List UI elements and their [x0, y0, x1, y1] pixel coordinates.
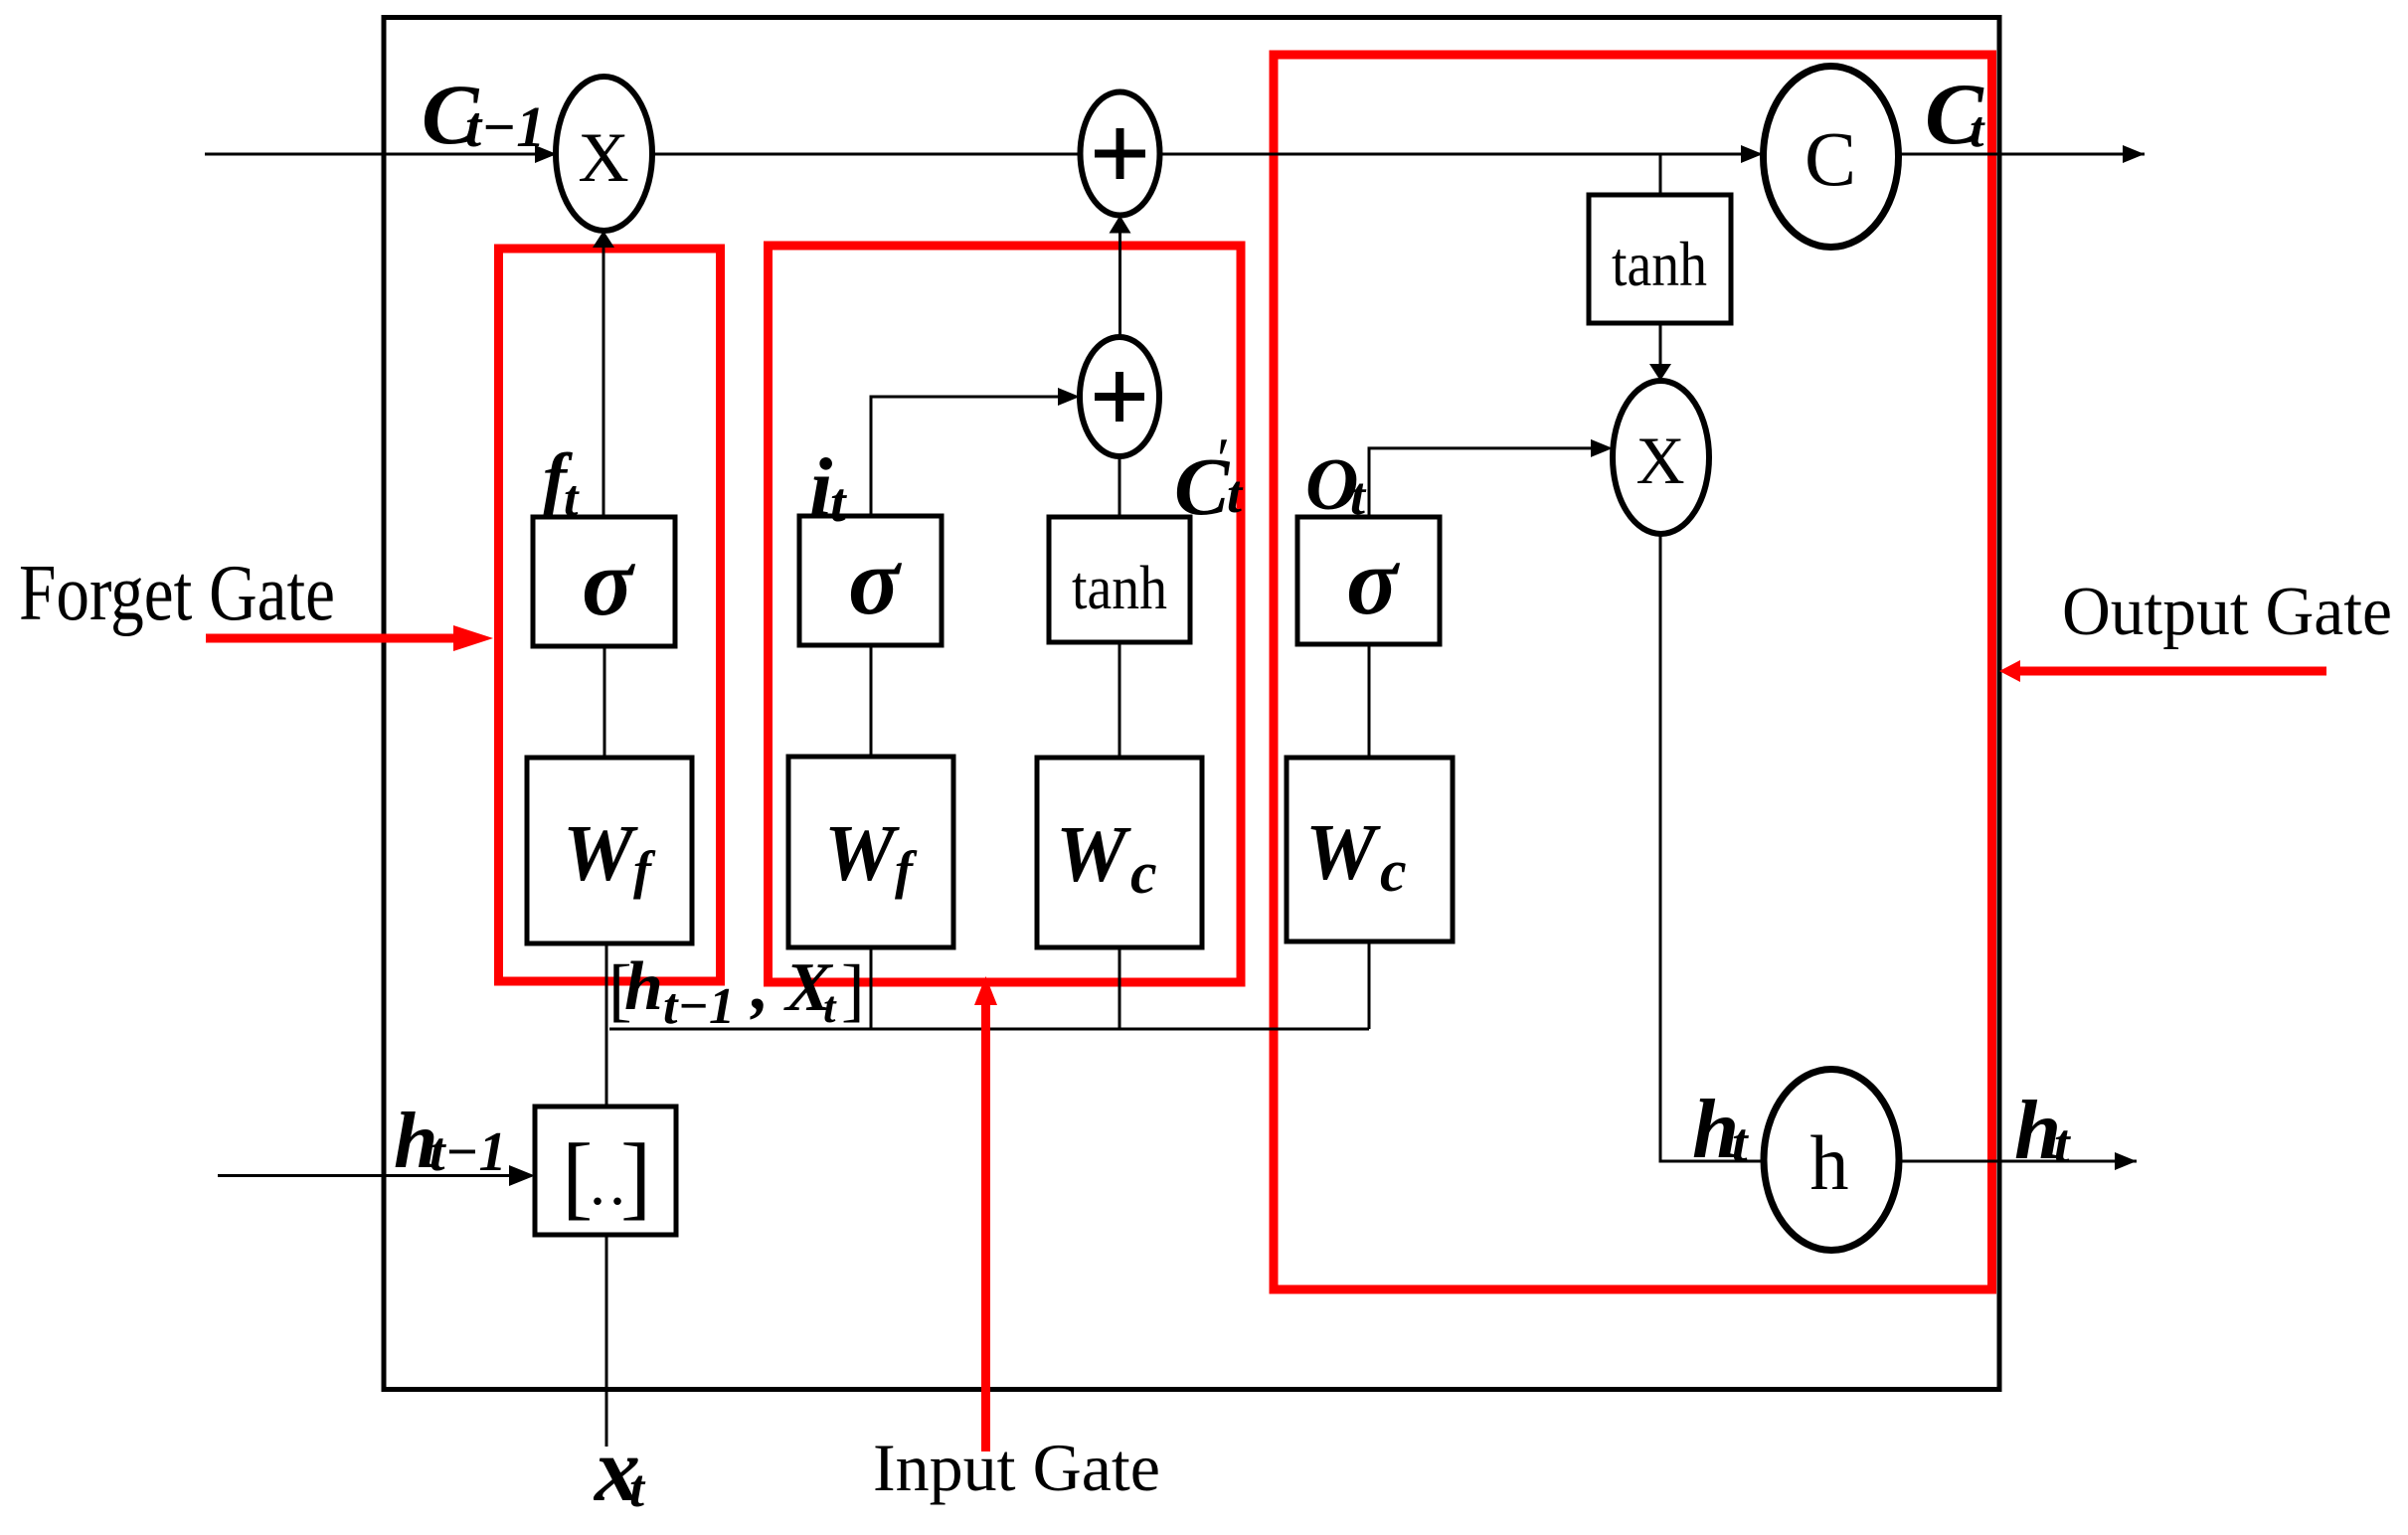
- Wf1 box: [527, 758, 692, 943]
- wire tanh1 down to Wc1: [1118, 642, 1121, 758]
- svg-text:Forget Gate: Forget Gate: [19, 550, 335, 637]
- wire Wc1 down to bus: [1118, 947, 1121, 1029]
- svg-text:t: t: [2054, 1113, 2071, 1175]
- wire junction C-line down to tanh2: [1659, 154, 1662, 195]
- svg-text:]: ]: [620, 1125, 651, 1229]
- svg-text:c: c: [1380, 838, 1407, 904]
- svg-text:tanh: tanh: [1072, 555, 1167, 622]
- svg-text:h: h: [624, 948, 663, 1025]
- wire sigma3 top corner to X2: [1369, 448, 1595, 517]
- svg-text:i: i: [809, 441, 832, 534]
- h ellipse: [1764, 1070, 1899, 1251]
- svg-text:t−1: t−1: [663, 978, 735, 1035]
- svg-text:t: t: [1732, 1112, 1749, 1174]
- svg-text:t: t: [1970, 101, 1985, 158]
- wire Wc2 down to bus: [1368, 941, 1371, 1029]
- svg-text:X: X: [578, 119, 628, 197]
- wire sigma1 up to X1: [602, 245, 605, 517]
- svg-text:σ: σ: [848, 528, 902, 634]
- svg-text:tanh: tanh: [1612, 229, 1707, 299]
- svg-text:t−1: t−1: [430, 1121, 507, 1183]
- svg-text:W: W: [1056, 811, 1131, 899]
- svg-text:]: ]: [841, 951, 865, 1029]
- svg-text:t: t: [564, 470, 580, 527]
- svg-text:t: t: [823, 982, 837, 1032]
- wire plus2 down to tanh1: [1118, 456, 1121, 517]
- Wc2 box: [1287, 758, 1453, 941]
- wire concat box down to xt: [605, 1235, 608, 1447]
- wire sigma2 top corner to plus2: [871, 397, 1062, 516]
- wire h to ht output arrow: [1899, 1160, 2137, 1163]
- wire C(t-1) input line: [205, 153, 557, 156]
- wire Wf1 down to concat box: [605, 943, 608, 1107]
- red arrow forget gate: [206, 634, 457, 643]
- svg-text:Output Gate: Output Gate: [2062, 574, 2392, 650]
- svg-text:W: W: [563, 810, 638, 898]
- svg-text:W: W: [824, 810, 900, 898]
- svg-text:σ: σ: [1346, 528, 1400, 634]
- svg-text:,: ,: [750, 948, 770, 1025]
- svg-text:h: h: [1810, 1119, 1849, 1206]
- svg-text:W: W: [1305, 809, 1381, 897]
- svg-text:c: c: [1130, 840, 1157, 906]
- wire plus1 to C ellipse: [1159, 153, 1763, 156]
- sigma3 box: [1297, 517, 1440, 644]
- wire sigma2 down to Wf2: [870, 645, 873, 757]
- wire plus2 up to plus1: [1118, 231, 1121, 337]
- output gate red box: [1274, 55, 1992, 1289]
- svg-text:Input Gate: Input Gate: [873, 1430, 1160, 1505]
- wire X2 down and right into h: [1660, 534, 1764, 1161]
- tanh2 box: [1589, 195, 1731, 323]
- Wc1 box: [1037, 758, 1202, 947]
- wire X1 to plus1: [652, 153, 1081, 156]
- wire sigma3 down to Wc2: [1368, 644, 1371, 758]
- wire sigma1 down to Wf1: [603, 646, 606, 758]
- red arrow output gate: [2018, 667, 2326, 676]
- multiply ellipse X1: [556, 77, 652, 231]
- svg-text:σ: σ: [582, 529, 635, 635]
- wire h(t-1) input arrow: [218, 1174, 517, 1177]
- svg-text:[: [: [562, 1125, 593, 1229]
- wire Wf2 down to bus: [870, 947, 873, 1029]
- concat box: [535, 1107, 676, 1235]
- wire tanh2 down arrow to X2: [1659, 323, 1662, 366]
- svg-text:t: t: [1350, 466, 1367, 526]
- wire C ellipse to Ct output arrow: [1899, 153, 2145, 156]
- input gate red box: [769, 246, 1242, 982]
- red arrow input gate: [981, 1002, 990, 1451]
- sigma2 box: [799, 516, 942, 645]
- add ellipse plus1: [1081, 92, 1160, 216]
- sigma1 box: [533, 517, 675, 646]
- add ellipse plus2: [1080, 337, 1159, 456]
- tanh1 box: [1049, 517, 1190, 642]
- multiply ellipse X2: [1613, 381, 1709, 534]
- wire concat bus horizontal: [609, 1028, 1369, 1031]
- svg-text:t−1: t−1: [465, 94, 545, 159]
- C ellipse: [1764, 67, 1899, 248]
- Wf2 box: [788, 757, 953, 947]
- svg-text:t: t: [1227, 464, 1244, 524]
- outer LSTM cell box: [384, 18, 1999, 1390]
- svg-text:X: X: [1635, 423, 1684, 498]
- svg-text:t: t: [830, 472, 847, 534]
- svg-text:t: t: [629, 1458, 646, 1518]
- forget gate red box: [499, 249, 721, 981]
- svg-text:C: C: [1805, 115, 1856, 202]
